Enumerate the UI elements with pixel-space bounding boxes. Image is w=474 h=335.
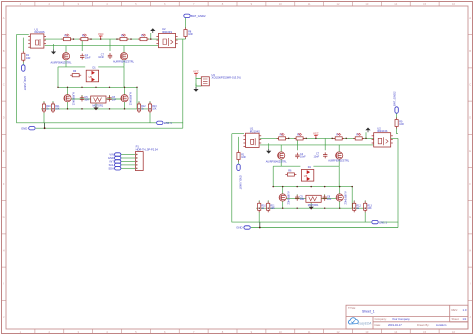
svg-text:G: G [3,215,5,219]
svg-text:SDA: SDA [108,166,114,170]
svg-text:15: 15 [423,330,426,334]
svg-text:H: H [469,248,471,252]
svg-text:G: G [469,215,471,219]
svg-text:14: 14 [394,330,397,334]
svg-text:A: A [3,16,5,20]
svg-text:10: 10 [279,330,282,334]
svg-text:D: D [3,116,5,120]
svg-text:zenidurn: zenidurn [436,323,447,327]
svg-text:C: C [469,82,471,86]
svg-text:Sheet:: Sheet: [452,317,460,321]
svg-text:14: 14 [394,2,397,6]
svg-text:16: 16 [452,330,455,334]
svg-text:Drawn By:: Drawn By: [417,323,430,327]
svg-text:INT: INT [110,160,115,164]
svg-text:Your Company: Your Company [392,317,410,321]
svg-text:REV:: REV: [452,308,459,312]
svg-text:B: B [469,49,471,53]
svg-text:12: 12 [337,330,340,334]
svg-text:13: 13 [365,2,368,6]
svg-text:13: 13 [365,330,368,334]
svg-text:1.0: 1.0 [463,308,467,312]
svg-text:EasyEDA: EasyEDA [358,321,372,325]
svg-text:HDR-TH_5P-P2.54: HDR-TH_5P-P2.54 [136,148,159,152]
svg-text:10R: 10R [399,123,404,126]
svg-text:Date:: Date: [375,323,382,327]
svg-text:12: 12 [337,2,340,6]
svg-text:C: C [3,82,5,86]
svg-text:D: D [469,116,471,120]
svg-text:10: 10 [279,2,282,6]
svg-text:1/1: 1/1 [463,317,467,321]
svg-text:2019-04-17: 2019-04-17 [388,323,402,327]
svg-text:H: H [3,248,5,252]
svg-text:XC6206P332MR-G(3.3V): XC6206P332MR-G(3.3V) [212,76,242,80]
svg-text:BAT_GND2: BAT_GND2 [191,14,206,18]
svg-text:BAT_GND2: BAT_GND2 [393,91,397,106]
svg-text:Sheet_1: Sheet_1 [362,310,375,314]
svg-text:E: E [469,149,471,153]
svg-text:16: 16 [452,2,455,6]
svg-text:SCL: SCL [109,163,115,167]
svg-text:GND: GND [108,156,114,160]
svg-text:15: 15 [423,2,426,6]
svg-text:E: E [3,149,5,153]
svg-text:A: A [469,16,471,20]
svg-text:10R: 10R [188,33,193,36]
svg-text:Company:: Company: [375,317,388,321]
svg-text:TITLE:: TITLE: [348,306,356,310]
svg-text:B: B [3,49,5,53]
svg-text:VIN: VIN [109,153,114,157]
